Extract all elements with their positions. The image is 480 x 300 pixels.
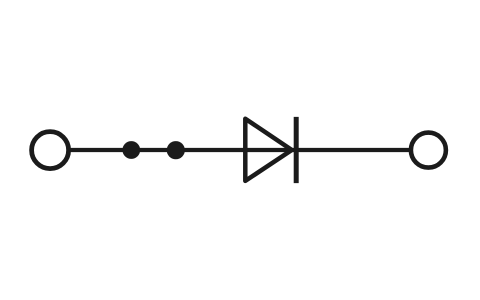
terminal X1 (left clamp point) [32,132,69,169]
terminal X2 (right clamp point) [411,133,446,168]
diode D1: anode triangle [245,119,291,181]
junction dot 1 [122,141,140,159]
junction dot 2 [167,141,185,159]
wire [69,148,410,152]
diode D1: cathode bar [294,117,299,183]
